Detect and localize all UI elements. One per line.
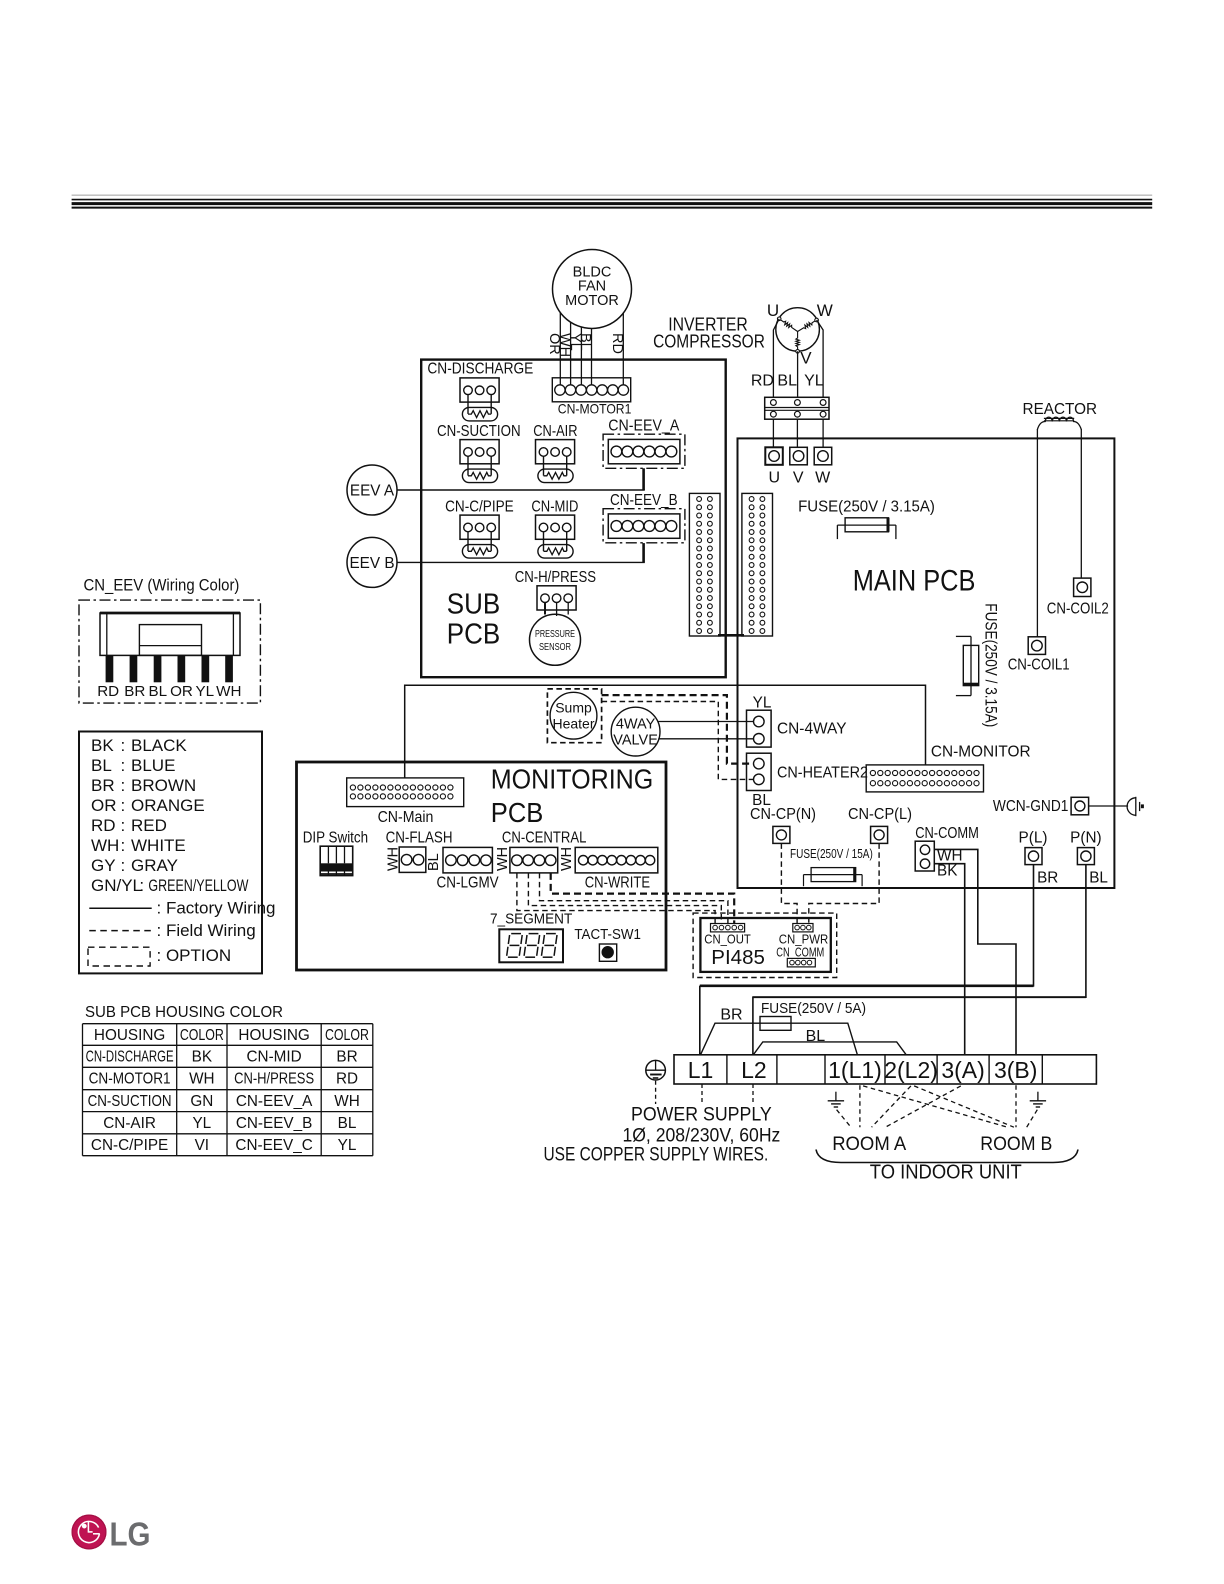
svg-text:WH: WH bbox=[334, 1093, 360, 1110]
svg-text:Heater: Heater bbox=[552, 716, 594, 732]
svg-text:DIP Switch: DIP Switch bbox=[303, 830, 368, 847]
svg-text:TACT-SW1: TACT-SW1 bbox=[574, 927, 641, 943]
svg-text:GY: GY bbox=[91, 856, 116, 875]
svg-text:CN-FLASH: CN-FLASH bbox=[386, 830, 453, 847]
svg-text:PCB: PCB bbox=[447, 619, 500, 651]
svg-text:RD: RD bbox=[751, 373, 774, 390]
svg-text:BK: BK bbox=[192, 1049, 213, 1066]
svg-text:BL: BL bbox=[91, 756, 112, 775]
svg-text:CN-AIR: CN-AIR bbox=[533, 423, 577, 440]
svg-text:GREEN/YELLOW: GREEN/YELLOW bbox=[148, 876, 248, 895]
svg-text:CN-SUCTION: CN-SUCTION bbox=[437, 423, 521, 440]
svg-text:1(L1): 1(L1) bbox=[828, 1057, 882, 1083]
svg-text:BROWN: BROWN bbox=[131, 776, 196, 795]
svg-text:V: V bbox=[800, 349, 812, 368]
svg-text::: : bbox=[121, 756, 126, 775]
svg-text:CN-H/PRESS: CN-H/PRESS bbox=[234, 1071, 314, 1088]
svg-text:SUB: SUB bbox=[447, 588, 500, 620]
svg-text:BL: BL bbox=[149, 683, 168, 700]
svg-text:CN-COIL2: CN-COIL2 bbox=[1047, 601, 1109, 618]
svg-text:COLOR: COLOR bbox=[180, 1027, 224, 1044]
svg-text:FUSE(250V / 15A): FUSE(250V / 15A) bbox=[790, 847, 873, 861]
svg-text:RD: RD bbox=[91, 816, 116, 835]
svg-text:CN-MONITOR: CN-MONITOR bbox=[931, 744, 1031, 761]
svg-text:RD: RD bbox=[336, 1071, 358, 1088]
svg-text:HOUSING: HOUSING bbox=[238, 1027, 309, 1044]
svg-text:3(B): 3(B) bbox=[994, 1057, 1037, 1083]
svg-text:FUSE(250V / 5A): FUSE(250V / 5A) bbox=[761, 1000, 866, 1017]
svg-text:MAIN PCB: MAIN PCB bbox=[853, 565, 976, 598]
svg-text::: : bbox=[121, 816, 126, 835]
svg-text:OR: OR bbox=[91, 796, 117, 815]
svg-text:HOUSING: HOUSING bbox=[94, 1027, 165, 1044]
svg-text:P(L): P(L) bbox=[1019, 830, 1048, 847]
svg-text:CN-EEV_B: CN-EEV_B bbox=[610, 492, 678, 509]
svg-text::: : bbox=[121, 796, 126, 815]
svg-text:2(L2): 2(L2) bbox=[884, 1057, 938, 1083]
svg-text:W: W bbox=[817, 301, 833, 320]
svg-text:CN-LGMV: CN-LGMV bbox=[437, 875, 500, 892]
svg-text:CN_EEV (Wiring Color): CN_EEV (Wiring Color) bbox=[84, 577, 240, 595]
svg-text:RD: RD bbox=[97, 683, 119, 700]
svg-text:PCB: PCB bbox=[491, 797, 544, 828]
svg-text:CN-4WAY: CN-4WAY bbox=[777, 721, 847, 738]
svg-text:CN-EEV_A: CN-EEV_A bbox=[608, 418, 680, 435]
svg-text:3(A): 3(A) bbox=[941, 1057, 984, 1083]
svg-text:BLACK: BLACK bbox=[131, 736, 187, 755]
svg-text:CN-COIL1: CN-COIL1 bbox=[1008, 657, 1070, 674]
svg-text:ROOM A: ROOM A bbox=[832, 1134, 906, 1155]
svg-text:GRAY: GRAY bbox=[131, 856, 178, 875]
svg-text:CN-EEV_B: CN-EEV_B bbox=[236, 1115, 313, 1132]
svg-text:1Ø, 208/230V, 60Hz: 1Ø, 208/230V, 60Hz bbox=[622, 1126, 780, 1147]
svg-text:BLUE: BLUE bbox=[131, 756, 175, 775]
svg-text:WH: WH bbox=[91, 836, 119, 855]
svg-text:7_SEGMENT: 7_SEGMENT bbox=[490, 912, 572, 928]
svg-text:MONITORING: MONITORING bbox=[491, 764, 654, 795]
svg-text:WH: WH bbox=[495, 847, 511, 871]
svg-text:BR: BR bbox=[336, 1049, 357, 1066]
svg-text:CN-H/PRESS: CN-H/PRESS bbox=[515, 569, 596, 586]
svg-text:POWER SUPPLY: POWER SUPPLY bbox=[631, 1105, 772, 1126]
svg-text:CN-MOTOR1: CN-MOTOR1 bbox=[89, 1071, 171, 1088]
svg-text:4WAY: 4WAY bbox=[616, 716, 656, 732]
svg-text:YL: YL bbox=[753, 695, 772, 712]
svg-text:WCN-GND1: WCN-GND1 bbox=[993, 798, 1069, 815]
svg-text:CN-CP(N): CN-CP(N) bbox=[750, 806, 816, 823]
svg-text:GN/YL: GN/YL bbox=[91, 876, 142, 895]
svg-text:CN-C/PIPE: CN-C/PIPE bbox=[91, 1137, 168, 1154]
svg-text:WH: WH bbox=[559, 847, 575, 871]
svg-text:BR: BR bbox=[124, 683, 145, 700]
svg-text:BK: BK bbox=[91, 736, 114, 755]
svg-text:L1: L1 bbox=[688, 1057, 714, 1083]
svg-text:CN-Main: CN-Main bbox=[378, 809, 434, 826]
svg-text:YL: YL bbox=[338, 1137, 357, 1154]
svg-text:PI485: PI485 bbox=[711, 947, 765, 969]
svg-text:GN: GN bbox=[190, 1093, 213, 1110]
svg-text:WH: WH bbox=[216, 683, 241, 700]
svg-text:RED: RED bbox=[131, 816, 167, 835]
svg-text:P(N): P(N) bbox=[1070, 830, 1101, 847]
svg-text:YL: YL bbox=[192, 1115, 211, 1132]
svg-text:YL: YL bbox=[804, 373, 824, 390]
svg-text:BL: BL bbox=[1089, 870, 1108, 887]
svg-text:: OPTION: : OPTION bbox=[157, 946, 232, 965]
svg-text:CN-MID: CN-MID bbox=[531, 498, 578, 515]
svg-text:COLOR: COLOR bbox=[325, 1027, 369, 1044]
svg-text:BL: BL bbox=[338, 1115, 357, 1132]
svg-text:MOTOR: MOTOR bbox=[565, 293, 619, 309]
svg-text:CN-MOTOR1: CN-MOTOR1 bbox=[558, 401, 632, 417]
svg-text:BL: BL bbox=[577, 333, 593, 351]
svg-text:EEV A: EEV A bbox=[350, 483, 395, 500]
svg-text:WH: WH bbox=[189, 1071, 215, 1088]
svg-text:CN-HEATER2: CN-HEATER2 bbox=[777, 765, 868, 782]
svg-text:: Factory Wiring: : Factory Wiring bbox=[157, 899, 276, 918]
svg-text:CN_COMM: CN_COMM bbox=[776, 946, 824, 960]
svg-text:CN-C/PIPE: CN-C/PIPE bbox=[445, 498, 514, 515]
svg-text:ORANGE: ORANGE bbox=[131, 796, 205, 815]
svg-text:FUSE(250V / 3.15A): FUSE(250V / 3.15A) bbox=[982, 603, 1000, 727]
svg-text::: : bbox=[139, 876, 144, 895]
svg-text:BR: BR bbox=[720, 1007, 742, 1024]
svg-text:OR: OR bbox=[170, 683, 193, 700]
svg-text:WHITE: WHITE bbox=[131, 836, 186, 855]
svg-text:L2: L2 bbox=[741, 1057, 767, 1083]
svg-text:BL: BL bbox=[426, 853, 442, 871]
svg-text::: : bbox=[121, 736, 126, 755]
svg-text:CN_OUT: CN_OUT bbox=[704, 932, 751, 947]
svg-text:LG: LG bbox=[110, 1516, 151, 1553]
svg-text:ROOM B: ROOM B bbox=[980, 1134, 1052, 1155]
svg-text:CN-EEV_A: CN-EEV_A bbox=[236, 1093, 313, 1110]
svg-text:EEV B: EEV B bbox=[349, 555, 394, 572]
svg-text:FUSE(250V / 3.15A): FUSE(250V / 3.15A) bbox=[798, 499, 935, 516]
svg-text:CN-CENTRAL: CN-CENTRAL bbox=[502, 830, 587, 847]
svg-text:SUB PCB HOUSING COLOR: SUB PCB HOUSING COLOR bbox=[85, 1004, 283, 1021]
svg-text:VALVE: VALVE bbox=[613, 732, 658, 748]
svg-text:YL: YL bbox=[196, 683, 215, 700]
svg-text:CN-CP(L): CN-CP(L) bbox=[848, 806, 912, 823]
svg-text:: Field Wiring: : Field Wiring bbox=[157, 921, 256, 940]
svg-text:CN_PWR: CN_PWR bbox=[779, 932, 828, 947]
svg-text:PRESSURE: PRESSURE bbox=[535, 629, 575, 640]
svg-text:BK: BK bbox=[937, 863, 958, 880]
svg-text::: : bbox=[121, 856, 126, 875]
svg-text:RD: RD bbox=[609, 333, 625, 354]
svg-text:W: W bbox=[815, 470, 831, 487]
svg-text:CN-DISCHARGE: CN-DISCHARGE bbox=[427, 361, 533, 378]
svg-text:REACTOR: REACTOR bbox=[1023, 401, 1098, 418]
svg-text:U: U bbox=[769, 470, 781, 487]
svg-text:CN-MID: CN-MID bbox=[246, 1049, 301, 1066]
svg-text:U: U bbox=[767, 301, 779, 320]
svg-text:SENSOR: SENSOR bbox=[539, 642, 571, 653]
svg-text:BR: BR bbox=[91, 776, 115, 795]
svg-text:BR: BR bbox=[1037, 870, 1058, 887]
svg-text:VI: VI bbox=[195, 1137, 209, 1154]
svg-text:BL: BL bbox=[777, 373, 797, 390]
svg-text:Sump: Sump bbox=[555, 700, 592, 716]
svg-text:CN-COMM: CN-COMM bbox=[915, 825, 979, 842]
svg-text:CN-SUCTION: CN-SUCTION bbox=[88, 1093, 172, 1110]
svg-text:V: V bbox=[793, 470, 804, 487]
svg-text:USE COPPER SUPPLY WIRES.: USE COPPER SUPPLY WIRES. bbox=[544, 1145, 769, 1166]
svg-text::: : bbox=[121, 776, 126, 795]
svg-text:TO INDOOR UNIT: TO INDOOR UNIT bbox=[870, 1162, 1022, 1184]
svg-text:CN-WRITE: CN-WRITE bbox=[585, 875, 650, 892]
svg-text:CN-AIR: CN-AIR bbox=[103, 1115, 156, 1132]
svg-text:COMPRESSOR: COMPRESSOR bbox=[653, 332, 765, 352]
svg-text:CN-EEV_C: CN-EEV_C bbox=[235, 1137, 312, 1154]
svg-text::: : bbox=[121, 836, 126, 855]
svg-text:CN-DISCHARGE: CN-DISCHARGE bbox=[86, 1049, 174, 1066]
